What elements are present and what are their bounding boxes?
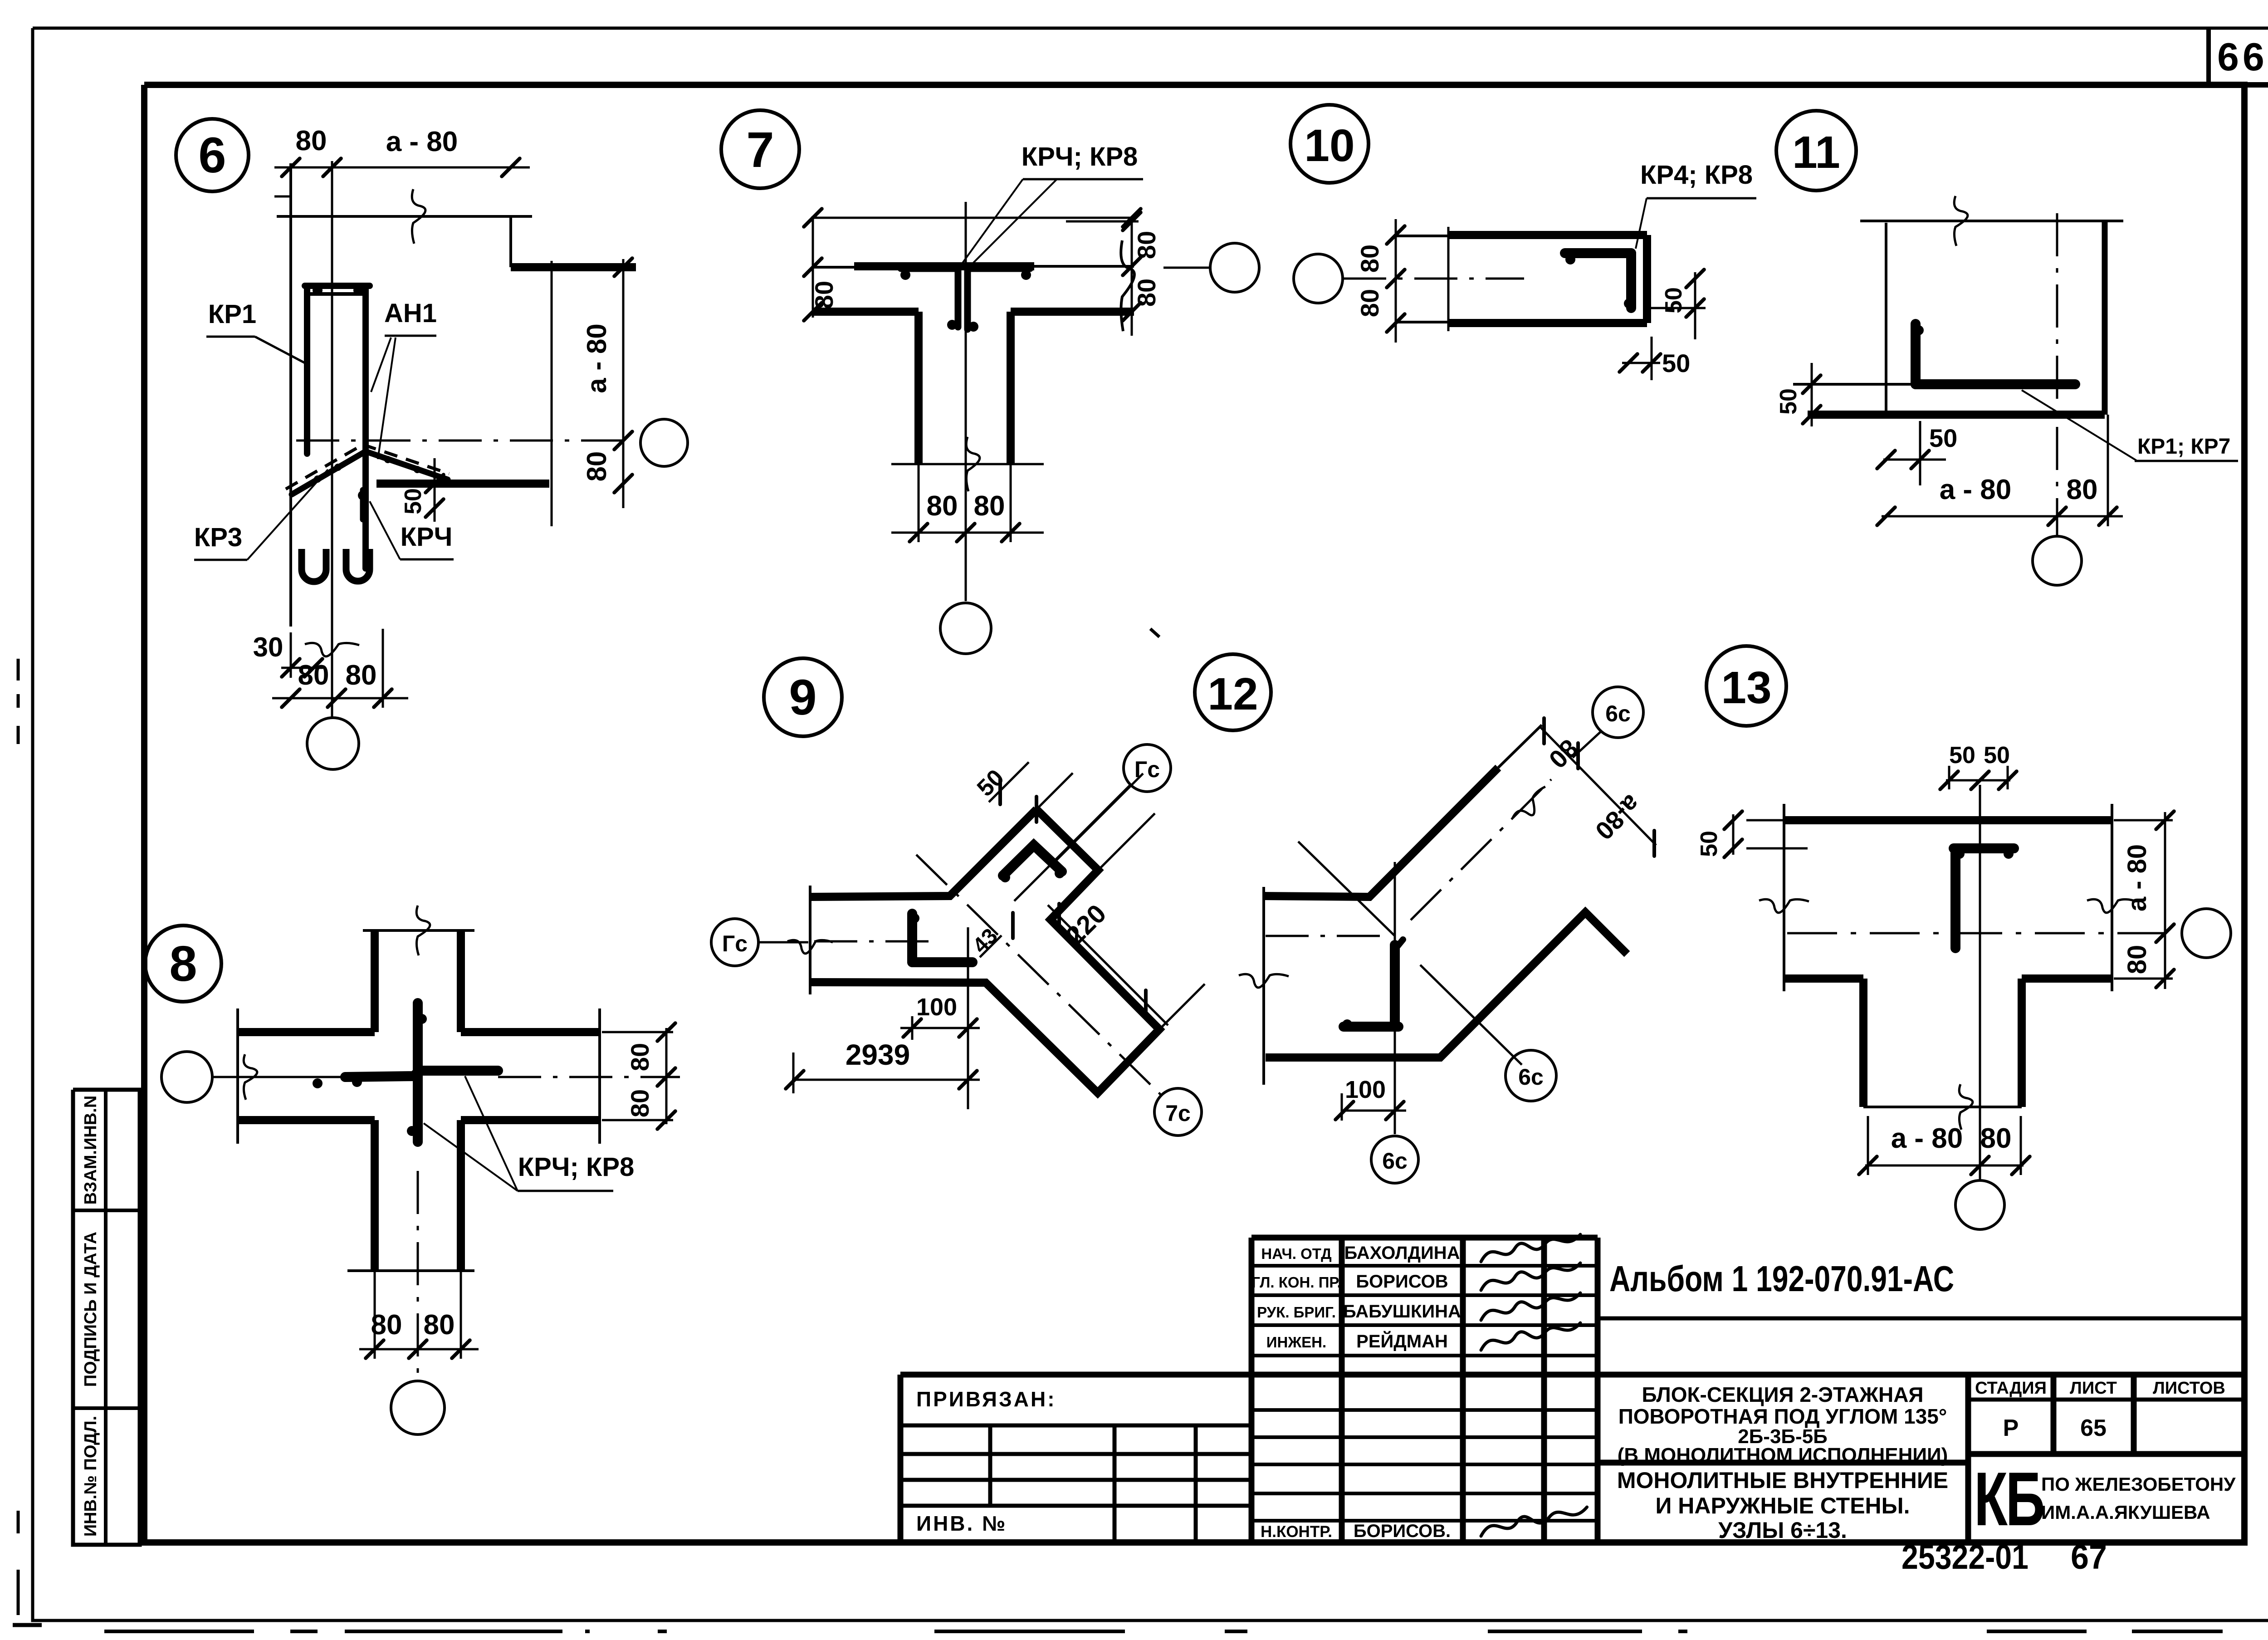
svg-text:12: 12 [1207,669,1258,720]
svg-text:БОРИСОВ.: БОРИСОВ. [1354,1521,1451,1541]
svg-text:КР3: КР3 [194,523,242,552]
svg-text:50: 50 [1662,349,1690,377]
svg-text:КРЧ; КР8: КРЧ; КР8 [1022,142,1138,171]
svg-text:КР1: КР1 [208,299,256,329]
svg-text:80: 80 [810,281,838,309]
svg-text:РУК. БРИГ.: РУК. БРИГ. [1257,1304,1336,1321]
svg-text:13: 13 [1721,662,1771,713]
svg-text:ЛИСТ: ЛИСТ [2070,1379,2117,1398]
svg-text:50: 50 [1929,424,1957,452]
svg-text:БАБУШКИНА: БАБУШКИНА [1343,1302,1461,1322]
svg-text:а - 80: а - 80 [582,323,612,393]
svg-text:КР1; КР7: КР1; КР7 [2137,435,2230,459]
svg-text:80: 80 [2122,945,2152,974]
svg-text:УЗЛЫ 6÷13.: УЗЛЫ 6÷13. [1718,1518,1847,1543]
svg-text:Гс: Гс [722,931,748,956]
svg-text:50: 50 [1661,287,1687,313]
svg-text:ИНВ. №: ИНВ. № [916,1512,1007,1535]
svg-text:50: 50 [1949,742,1975,769]
svg-text:80: 80 [582,451,612,482]
svg-text:30: 30 [253,632,283,662]
svg-text:КБ: КБ [1974,1457,2043,1542]
svg-text:80: 80 [1355,245,1384,273]
svg-text:ПОДПИСЬ И ДАТА: ПОДПИСЬ И ДАТА [81,1232,100,1387]
svg-text:80: 80 [2067,474,2098,505]
svg-text:80: 80 [626,1043,654,1071]
svg-text:БАХОЛДИНА: БАХОЛДИНА [1344,1243,1460,1263]
svg-text:2939: 2939 [846,1038,910,1071]
svg-text:АН1: АН1 [384,299,437,328]
svg-text:80: 80 [927,490,958,522]
svg-text:6с: 6с [1518,1064,1544,1090]
svg-text:80: 80 [1132,279,1161,307]
svg-text:11: 11 [1792,127,1840,178]
svg-text:50: 50 [1984,742,2010,769]
svg-text:РЕЙДМАН: РЕЙДМАН [1356,1331,1448,1351]
svg-text:80: 80 [424,1309,455,1341]
svg-text:ПО ЖЕЛЕЗОБЕТОНУ: ПО ЖЕЛЕЗОБЕТОНУ [2041,1474,2236,1495]
svg-text:50: 50 [400,488,426,514]
svg-text:6с: 6с [1605,701,1631,726]
svg-text:ИНВ.№ ПОДЛ.: ИНВ.№ ПОДЛ. [81,1416,100,1537]
svg-text:ВЗАМ.ИНВ.N: ВЗАМ.ИНВ.N [81,1096,100,1205]
svg-text:66: 66 [2217,35,2268,79]
svg-text:100: 100 [916,994,957,1021]
svg-text:100: 100 [1345,1076,1386,1103]
svg-text:6с: 6с [1382,1148,1408,1174]
svg-text:а - 80: а - 80 [386,126,458,157]
svg-text:ПОВОРОТНАЯ ПОД УГЛОМ 135°: ПОВОРОТНАЯ ПОД УГЛОМ 135° [1618,1405,1947,1428]
svg-text:ИМ.А.А.ЯКУШЕВА: ИМ.А.А.ЯКУШЕВА [2041,1502,2210,1523]
svg-text:(В МОНОЛИТНОМ ИСПОЛНЕНИИ): (В МОНОЛИТНОМ ИСПОЛНЕНИИ) [1618,1444,1948,1466]
svg-text:КРЧ: КРЧ [401,522,453,552]
svg-text:НАЧ. ОТД: НАЧ. ОТД [1261,1245,1331,1262]
svg-text:Н.КОНТР.: Н.КОНТР. [1261,1523,1332,1541]
svg-text:И НАРУЖНЫЕ СТЕНЫ.: И НАРУЖНЫЕ СТЕНЫ. [1655,1493,1910,1518]
svg-text:80: 80 [1132,231,1161,259]
svg-text:25322-01: 25322-01 [1901,1538,2028,1576]
svg-text:10: 10 [1304,120,1354,171]
svg-text:9: 9 [789,670,816,725]
svg-text:80: 80 [1355,289,1384,317]
svg-text:БОРИСОВ: БОРИСОВ [1356,1272,1448,1292]
svg-text:6: 6 [198,127,226,183]
svg-text:а - 80: а - 80 [2122,844,2152,911]
svg-text:а - 80: а - 80 [1940,474,2012,505]
svg-text:65: 65 [2080,1415,2107,1441]
svg-text:СТАДИЯ: СТАДИЯ [1975,1379,2047,1398]
svg-text:ЛИСТОВ: ЛИСТОВ [2153,1379,2225,1398]
svg-text:7: 7 [746,122,774,178]
svg-text:ПРИВЯЗАН:: ПРИВЯЗАН: [916,1387,1056,1411]
svg-text:ГЛ. КОН. ПР.: ГЛ. КОН. ПР. [1251,1274,1341,1291]
svg-text:7с: 7с [1165,1101,1191,1126]
svg-text:КРЧ; КР8: КРЧ; КР8 [518,1152,635,1182]
svg-text:67: 67 [2071,1538,2107,1576]
svg-text:80: 80 [626,1089,654,1117]
svg-text:Р: Р [2003,1415,2019,1441]
svg-text:КР4; КР8: КР4; КР8 [1640,160,1753,190]
svg-text:80: 80 [1980,1123,2012,1154]
svg-text:БЛОК-СЕКЦИЯ 2-ЭТАЖНАЯ: БЛОК-СЕКЦИЯ 2-ЭТАЖНАЯ [1642,1383,1924,1406]
svg-text:80: 80 [974,490,1005,522]
svg-text:8: 8 [169,936,197,992]
svg-text:а - 80: а - 80 [1891,1123,1963,1154]
svg-text:МОНОЛИТНЫЕ ВНУТРЕННИЕ: МОНОЛИТНЫЕ ВНУТРЕННИЕ [1617,1468,1948,1493]
svg-text:50: 50 [1696,831,1722,857]
svg-text:ИНЖЕН.: ИНЖЕН. [1266,1334,1326,1351]
svg-text:80: 80 [298,660,329,691]
svg-text:50: 50 [1775,388,1802,415]
svg-text:80: 80 [346,660,377,691]
svg-text:Альбом 1 192-070.91-АС: Альбом 1 192-070.91-АС [1609,1258,1954,1299]
svg-text:80: 80 [296,125,327,157]
